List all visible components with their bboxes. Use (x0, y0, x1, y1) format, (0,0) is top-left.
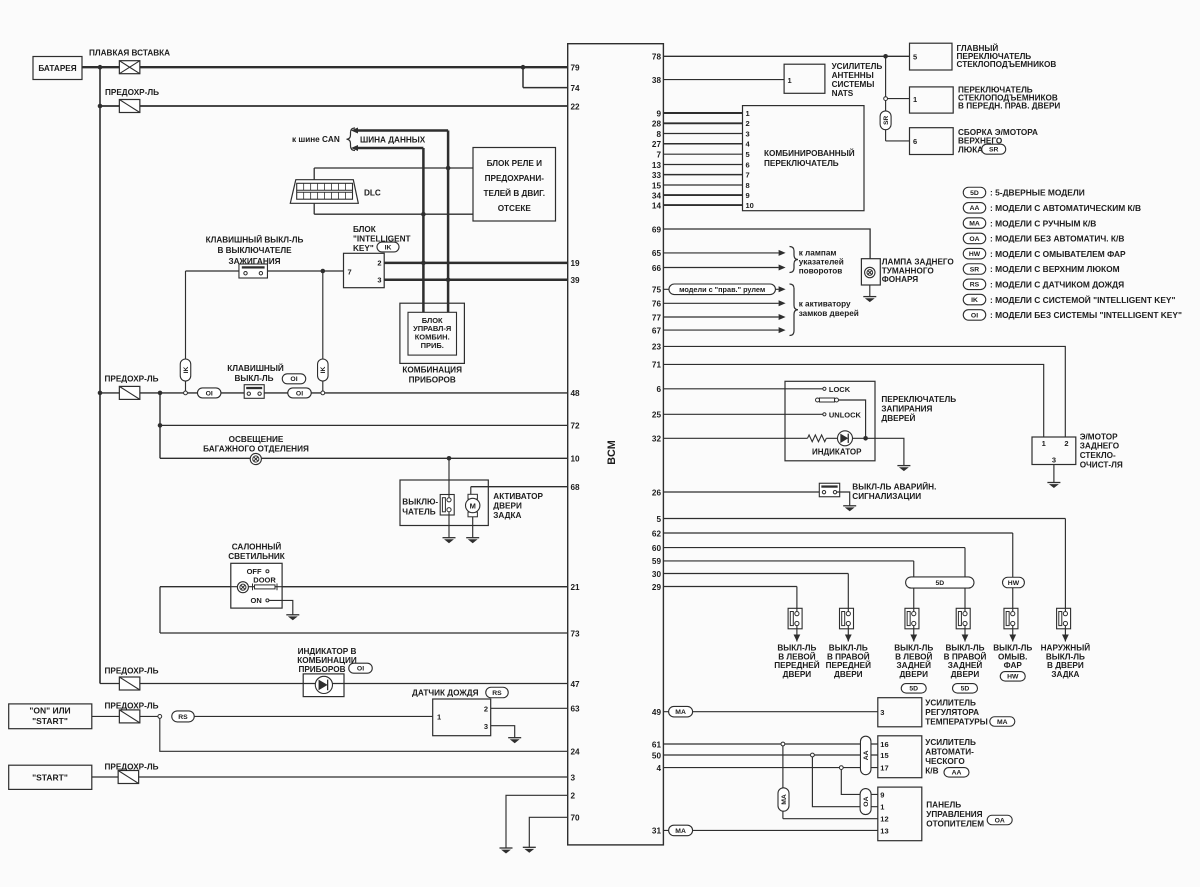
svg-text:RS: RS (970, 282, 980, 289)
svg-text:31: 31 (652, 827, 662, 836)
svg-text:70: 70 (571, 814, 581, 823)
svg-text:UNLOCK: UNLOCK (829, 410, 862, 419)
svg-text:ОТОПИТЕЛЕМ: ОТОПИТЕЛЕМ (926, 819, 984, 828)
svg-text:77: 77 (652, 313, 662, 322)
svg-text:В ПЕРЕДН. ПРАВ. ДВЕРИ: В ПЕРЕДН. ПРАВ. ДВЕРИ (958, 101, 1060, 110)
svg-text:УСИЛИТЕЛЬ: УСИЛИТЕЛЬ (832, 62, 883, 71)
svg-text:ОЧИСТ-ЛЯ: ОЧИСТ-ЛЯ (1080, 460, 1123, 469)
svg-text:БЛОК РЕЛЕ И: БЛОК РЕЛЕ И (487, 159, 542, 168)
svg-text:34: 34 (652, 191, 662, 200)
svg-text:: МОДЕЛИ С ОМЫВАТЕЛЕМ ФАР: : МОДЕЛИ С ОМЫВАТЕЛЕМ ФАР (990, 249, 1126, 259)
svg-text:9: 9 (880, 790, 884, 799)
svg-text:1: 1 (788, 76, 792, 85)
svg-text:OA: OA (969, 236, 979, 243)
svg-text:СИСТЕМЫ: СИСТЕМЫ (832, 80, 875, 89)
svg-text:26: 26 (652, 488, 662, 497)
svg-text:27: 27 (652, 140, 662, 149)
svg-text:1: 1 (1042, 439, 1046, 448)
svg-text:поворотов: поворотов (799, 267, 843, 276)
svg-text:: МОДЕЛИ БЕЗ АВТОМАТИЧ. К/В: : МОДЕЛИ БЕЗ АВТОМАТИЧ. К/В (990, 234, 1124, 244)
svg-text:5: 5 (656, 515, 661, 524)
svg-text:5: 5 (746, 150, 750, 159)
svg-text:16: 16 (880, 740, 888, 749)
svg-text:КОМБИНАЦИИ: КОМБИНАЦИИ (297, 656, 357, 665)
svg-text:KEY": KEY" (353, 244, 374, 253)
svg-text:4: 4 (656, 764, 661, 773)
svg-text:ЛЮКА: ЛЮКА (958, 145, 983, 154)
svg-text:66: 66 (652, 264, 662, 273)
svg-text:ФОНАРЯ: ФОНАРЯ (882, 275, 918, 284)
svg-text:DOOR: DOOR (253, 576, 276, 585)
svg-text:ПАНЕЛЬ: ПАНЕЛЬ (926, 801, 961, 810)
svg-text:8: 8 (746, 181, 750, 190)
svg-text:ВЫКЛ-ЛЬ: ВЫКЛ-ЛЬ (777, 644, 816, 653)
svg-text:28: 28 (652, 120, 662, 129)
svg-text:25: 25 (652, 411, 662, 420)
svg-text:ТУМАННОГО: ТУМАННОГО (882, 266, 935, 275)
svg-text:DLC: DLC (364, 188, 381, 197)
svg-text:19: 19 (571, 259, 581, 268)
svg-text:1: 1 (437, 713, 441, 722)
svg-text:КОМБИНИРОВАННЫЙ: КОМБИНИРОВАННЫЙ (764, 147, 855, 158)
svg-text:3: 3 (484, 722, 488, 731)
svg-text:: МОДЕЛИ С РУЧНЫМ К/В: : МОДЕЛИ С РУЧНЫМ К/В (990, 218, 1096, 228)
svg-text:OI: OI (206, 390, 213, 397)
svg-text:IK: IK (971, 297, 978, 304)
svg-text:В ПРАВОЙ: В ПРАВОЙ (944, 650, 987, 661)
svg-text:ДВЕРИ: ДВЕРИ (834, 670, 863, 679)
svg-text:IK: IK (320, 367, 327, 374)
svg-text:3: 3 (746, 129, 750, 138)
svg-text:IK: IK (385, 244, 392, 251)
svg-text:модели с "прав." рулем: модели с "прав." рулем (679, 285, 765, 294)
svg-text:10: 10 (746, 201, 754, 210)
svg-text:74: 74 (571, 84, 581, 93)
svg-text:AA: AA (970, 205, 980, 212)
svg-text:2: 2 (746, 119, 750, 128)
svg-text:9: 9 (656, 109, 661, 118)
svg-text:УСИЛИТЕЛЬ: УСИЛИТЕЛЬ (925, 699, 976, 708)
svg-text:ON: ON (251, 596, 262, 605)
svg-text:ЗАДНЕЙ: ЗАДНЕЙ (948, 659, 983, 670)
svg-text:MA: MA (781, 794, 788, 805)
svg-text:ПРЕДОХР-ЛЬ: ПРЕДОХР-ЛЬ (105, 375, 159, 384)
svg-text:ВЫКЛ-ЛЬ: ВЫКЛ-ЛЬ (234, 374, 273, 383)
svg-text:: МОДЕЛИ БЕЗ СИСТЕМЫ "INTELLIG: : МОДЕЛИ БЕЗ СИСТЕМЫ "INTELLIGENT KEY" (990, 310, 1182, 320)
svg-text:СБОРКА Э/МОТОРА: СБОРКА Э/МОТОРА (958, 128, 1038, 137)
svg-text:ФАР: ФАР (1004, 661, 1023, 670)
svg-text:5D: 5D (961, 686, 970, 693)
svg-text:2: 2 (1064, 439, 1068, 448)
svg-text:3: 3 (880, 708, 884, 717)
svg-text:ЗАПИРАНИЯ: ЗАПИРАНИЯ (881, 405, 932, 414)
svg-text:1: 1 (880, 803, 884, 812)
svg-text:MA: MA (675, 828, 686, 835)
svg-text:47: 47 (571, 680, 581, 689)
svg-text:ЗАДНЕЙ: ЗАДНЕЙ (897, 659, 932, 670)
svg-text:5D: 5D (970, 190, 979, 197)
svg-text:3: 3 (571, 773, 576, 782)
svg-text:КЛАВИШНЫЙ: КЛАВИШНЫЙ (227, 362, 284, 373)
svg-text:ВЫКЛ-ЛЬ: ВЫКЛ-ЛЬ (829, 644, 868, 653)
svg-text:71: 71 (652, 361, 662, 370)
svg-text:ПЕРЕКЛЮЧАТЕЛЬ: ПЕРЕКЛЮЧАТЕЛЬ (764, 159, 839, 168)
svg-text:HW: HW (969, 251, 981, 258)
svg-text:65: 65 (652, 249, 662, 258)
svg-text:ТЕМПЕРАТУРЫ: ТЕМПЕРАТУРЫ (925, 718, 987, 727)
svg-text:ПРИБОРОВ: ПРИБОРОВ (298, 665, 345, 674)
svg-text:OA: OA (863, 796, 870, 806)
svg-text:75: 75 (652, 286, 662, 295)
svg-text:СТЕКЛОПОДЪЕМНИКОВ: СТЕКЛОПОДЪЕМНИКОВ (957, 60, 1057, 69)
svg-text:5: 5 (913, 53, 917, 62)
svg-text:AA: AA (952, 770, 962, 777)
svg-text:УПРАВЛЕНИЯ: УПРАВЛЕНИЯ (926, 810, 982, 819)
svg-text:6: 6 (656, 385, 661, 394)
svg-text:КОМБИНАЦИЯ: КОМБИНАЦИЯ (402, 366, 462, 375)
svg-text:УСИЛИТЕЛЬ: УСИЛИТЕЛЬ (925, 738, 976, 747)
svg-text:ВЫКЛ-ЛЬ: ВЫКЛ-ЛЬ (945, 644, 984, 653)
svg-text:13: 13 (652, 161, 662, 170)
svg-text:ИНДИКАТОР В: ИНДИКАТОР В (298, 647, 357, 656)
svg-text:ОТСЕКЕ: ОТСЕКЕ (498, 204, 532, 213)
svg-text:БАТАРЕЯ: БАТАРЕЯ (38, 64, 76, 73)
svg-text:39: 39 (571, 276, 581, 285)
svg-text:К/В: К/В (925, 767, 938, 776)
svg-text:69: 69 (652, 225, 662, 234)
svg-text:2: 2 (377, 259, 381, 268)
svg-text:АКТИВАТОР: АКТИВАТОР (493, 492, 543, 501)
svg-text:10: 10 (571, 455, 581, 464)
svg-text:21: 21 (571, 583, 581, 592)
svg-text:ПРЕДОХРАНИ-: ПРЕДОХРАНИ- (485, 174, 545, 183)
svg-text:SR: SR (989, 147, 999, 154)
svg-text:В ВЫКЛЮЧАТЕЛЕ: В ВЫКЛЮЧАТЕЛЕ (217, 246, 292, 255)
svg-text:ВЫКЛ-ЛЬ: ВЫКЛ-ЛЬ (1046, 652, 1085, 661)
svg-text:СТЕКЛО-: СТЕКЛО- (1080, 451, 1116, 460)
svg-text:BCM: BCM (606, 440, 618, 465)
svg-text:HW: HW (1008, 580, 1020, 587)
svg-text:В ДВЕРИ: В ДВЕРИ (1047, 661, 1084, 670)
svg-text:RS: RS (492, 690, 502, 697)
svg-text:38: 38 (652, 76, 662, 85)
svg-text:SR: SR (883, 115, 890, 124)
svg-text:OI: OI (296, 390, 303, 397)
svg-text:IK: IK (183, 367, 190, 374)
svg-text:AA: AA (863, 750, 870, 760)
svg-text:ЗАДКА: ЗАДКА (493, 511, 521, 520)
svg-text:MA: MA (969, 221, 980, 228)
svg-text:61: 61 (652, 740, 662, 749)
svg-text:5D: 5D (909, 686, 918, 693)
svg-text:: МОДЕЛИ С АВТОМАТИЧЕСКИМ К/В: : МОДЕЛИ С АВТОМАТИЧЕСКИМ К/В (990, 203, 1141, 213)
svg-text:RS: RS (178, 714, 188, 721)
svg-text:ВЫКЛ-ЛЬ АВАРИЙН.: ВЫКЛ-ЛЬ АВАРИЙН. (852, 480, 936, 491)
svg-text:60: 60 (652, 544, 662, 553)
svg-text:49: 49 (652, 708, 662, 717)
svg-text:ПРЕДОХР-ЛЬ: ПРЕДОХР-ЛЬ (105, 88, 159, 97)
svg-text:ДВЕРИ: ДВЕРИ (783, 670, 812, 679)
svg-text:"ON" ИЛИ: "ON" ИЛИ (29, 706, 70, 716)
svg-text:32: 32 (652, 435, 662, 444)
svg-text:22: 22 (571, 102, 581, 111)
svg-text:СИГНАЛИЗАЦИИ: СИГНАЛИЗАЦИИ (852, 492, 921, 501)
svg-text:ПРЕДОХР-ЛЬ: ПРЕДОХР-ЛЬ (105, 666, 159, 675)
svg-text:СВЕТИЛЬНИК: СВЕТИЛЬНИК (228, 552, 286, 561)
svg-text:78: 78 (652, 53, 662, 62)
svg-text:ЗАДНЕГО: ЗАДНЕГО (1080, 442, 1120, 451)
svg-text:ПРЕДОХР-ЛЬ: ПРЕДОХР-ЛЬ (105, 763, 159, 772)
svg-text:6: 6 (746, 160, 750, 169)
svg-text:17: 17 (880, 764, 888, 773)
svg-text:КЛАВИШНЫЙ ВЫКЛ-ЛЬ: КЛАВИШНЫЙ ВЫКЛ-ЛЬ (206, 233, 304, 244)
svg-text:к активатору: к активатору (799, 300, 851, 309)
svg-text:12: 12 (880, 815, 888, 824)
svg-text:OA: OA (995, 817, 1005, 824)
svg-text:ЗАДКА: ЗАДКА (1051, 670, 1079, 679)
svg-text:33: 33 (652, 171, 662, 180)
svg-text:NATS: NATS (832, 89, 854, 98)
svg-text:24: 24 (571, 748, 581, 757)
svg-text:: МОДЕЛИ С ДАТЧИКОМ ДОЖДЯ: : МОДЕЛИ С ДАТЧИКОМ ДОЖДЯ (990, 280, 1124, 290)
svg-text:6: 6 (913, 137, 917, 146)
svg-text:ШИНА ДАННЫХ: ШИНА ДАННЫХ (360, 135, 426, 144)
svg-text:ПРЕДОХР-ЛЬ: ПРЕДОХР-ЛЬ (105, 702, 159, 711)
svg-text:: МОДЕЛИ С СИСТЕМОЙ "INTELLIGE: : МОДЕЛИ С СИСТЕМОЙ "INTELLIGENT KEY" (990, 294, 1176, 305)
svg-text:SR: SR (970, 266, 980, 273)
svg-text:23: 23 (652, 343, 662, 352)
svg-text:БЛОК: БЛОК (353, 225, 377, 234)
svg-text:30: 30 (652, 570, 662, 579)
svg-text:ИНДИКАТОР: ИНДИКАТОР (812, 447, 862, 456)
svg-text:63: 63 (571, 705, 581, 714)
svg-text:3: 3 (377, 276, 381, 285)
svg-text:59: 59 (652, 557, 662, 566)
svg-text:7: 7 (746, 171, 750, 180)
svg-text:67: 67 (652, 326, 662, 335)
svg-text:7: 7 (656, 151, 661, 160)
svg-text:76: 76 (652, 300, 662, 309)
svg-text:ЛАМПА ЗАДНЕГО: ЛАМПА ЗАДНЕГО (882, 258, 955, 267)
svg-text:замков дверей: замков дверей (799, 309, 859, 318)
svg-text:OI: OI (290, 376, 297, 383)
svg-text:ОМЫВ.: ОМЫВ. (998, 652, 1027, 661)
svg-text:"START": "START" (32, 716, 68, 726)
svg-text:ВЫКЛ-ЛЬ: ВЫКЛ-ЛЬ (993, 644, 1032, 653)
svg-text:LOCK: LOCK (829, 385, 851, 394)
svg-text:ЧЕСКОГО: ЧЕСКОГО (925, 757, 965, 766)
svg-text:15: 15 (652, 181, 662, 190)
svg-text:ДВЕРИ: ДВЕРИ (493, 502, 522, 511)
svg-text:"START": "START" (32, 773, 68, 783)
svg-text:АНТЕННЫ: АНТЕННЫ (832, 71, 874, 80)
svg-text:7: 7 (348, 267, 352, 276)
svg-text:указателей: указателей (799, 258, 844, 267)
svg-text:ОСВЕЩЕНИЕ: ОСВЕЩЕНИЕ (229, 435, 284, 444)
svg-text:2: 2 (571, 792, 576, 801)
svg-text:ПЕРЕДНЕЙ: ПЕРЕДНЕЙ (774, 659, 819, 670)
svg-text:В ЛЕВОЙ: В ЛЕВОЙ (778, 650, 815, 661)
svg-text:ДВЕРЕЙ: ДВЕРЕЙ (881, 412, 915, 423)
svg-text:: 5-ДВЕРНЫЕ МОДЕЛИ: : 5-ДВЕРНЫЕ МОДЕЛИ (990, 188, 1085, 198)
svg-text:3: 3 (1052, 456, 1056, 465)
svg-text:В ЛЕВОЙ: В ЛЕВОЙ (895, 650, 932, 661)
svg-text:62: 62 (652, 529, 662, 538)
svg-text:к шине CAN: к шине CAN (292, 135, 340, 144)
svg-text:5D: 5D (935, 580, 944, 587)
svg-text:ПРИБОРОВ: ПРИБОРОВ (409, 375, 456, 384)
svg-text:13: 13 (880, 826, 888, 835)
svg-text:MA: MA (675, 709, 686, 716)
svg-text:29: 29 (652, 583, 662, 592)
svg-text:ПРИБ.: ПРИБ. (421, 341, 444, 350)
svg-text:ДВЕРИ: ДВЕРИ (899, 670, 928, 679)
svg-text:В ПРАВОЙ: В ПРАВОЙ (827, 650, 870, 661)
svg-text:72: 72 (571, 422, 581, 431)
svg-text:9: 9 (746, 191, 750, 200)
svg-text:ДВЕРИ: ДВЕРИ (951, 670, 980, 679)
svg-text:ДАТЧИК ДОЖДЯ: ДАТЧИК ДОЖДЯ (412, 689, 479, 698)
svg-text:HW: HW (1007, 674, 1019, 681)
svg-text:: МОДЕЛИ С ВЕРХНИМ ЛЮКОМ: : МОДЕЛИ С ВЕРХНИМ ЛЮКОМ (990, 264, 1120, 274)
svg-text:M: M (470, 502, 476, 511)
svg-text:OI: OI (357, 666, 364, 673)
svg-text:15: 15 (880, 751, 888, 760)
svg-text:ВЫКЛЮ-: ВЫКЛЮ- (402, 497, 438, 506)
svg-text:РЕГУЛЯТОРА: РЕГУЛЯТОРА (925, 708, 979, 717)
svg-text:50: 50 (652, 751, 662, 760)
svg-text:OI: OI (971, 312, 978, 319)
svg-text:79: 79 (571, 64, 581, 73)
svg-text:14: 14 (652, 201, 662, 210)
svg-text:ВЫКЛ-ЛЬ: ВЫКЛ-ЛЬ (894, 644, 933, 653)
svg-text:Э/МОТОР: Э/МОТОР (1080, 432, 1118, 441)
svg-text:68: 68 (571, 483, 581, 492)
svg-text:ТЕЛЕЙ В ДВИГ.: ТЕЛЕЙ В ДВИГ. (484, 187, 546, 198)
svg-text:1: 1 (746, 109, 750, 118)
svg-text:ПЛАВКАЯ ВСТАВКА: ПЛАВКАЯ ВСТАВКА (89, 49, 170, 58)
svg-text:БАГАЖНОГО ОТДЕЛЕНИЯ: БАГАЖНОГО ОТДЕЛЕНИЯ (203, 445, 309, 454)
svg-text:MA: MA (997, 719, 1008, 726)
svg-text:АВТОМАТИ-: АВТОМАТИ- (925, 748, 974, 757)
svg-text:1: 1 (913, 95, 917, 104)
svg-text:НАРУЖНЫЙ: НАРУЖНЫЙ (1041, 642, 1091, 653)
svg-text:ПЕРЕКЛЮЧАТЕЛЬ: ПЕРЕКЛЮЧАТЕЛЬ (881, 395, 956, 404)
svg-text:к лампам: к лампам (799, 249, 837, 258)
svg-text:2: 2 (484, 704, 488, 713)
svg-text:САЛОННЫЙ: САЛОННЫЙ (232, 540, 282, 551)
svg-text:ЧАТЕЛЬ: ЧАТЕЛЬ (402, 507, 435, 516)
svg-text:8: 8 (656, 130, 661, 139)
svg-text:48: 48 (571, 389, 581, 398)
svg-text:73: 73 (571, 629, 581, 638)
svg-text:ПЕРЕДНЕЙ: ПЕРЕДНЕЙ (826, 659, 871, 670)
